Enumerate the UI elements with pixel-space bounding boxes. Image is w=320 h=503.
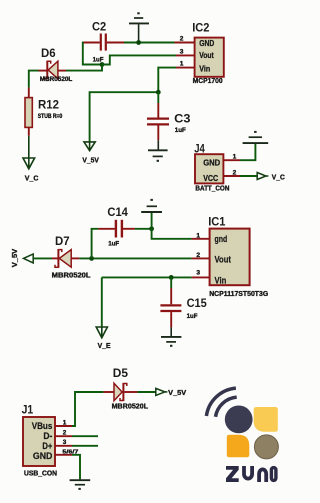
logo amber square (bottom left, rounded top-right) xyxy=(227,435,250,458)
svg-text:IC1: IC1 xyxy=(208,214,225,228)
svg-text:D6: D6 xyxy=(41,46,56,60)
SECTION J1 xyxy=(22,366,187,490)
wire J1 pin1 up to D5 xyxy=(72,392,103,426)
svg-text:GND: GND xyxy=(199,39,214,48)
connector J1 box (USB_CON) xyxy=(23,417,55,466)
node junction at (171.2,277.4) xyxy=(169,275,174,280)
supply arrow V_5V (down) xyxy=(84,142,95,151)
svg-text:MBR0520L: MBR0520L xyxy=(40,76,73,83)
svg-text:V_5V: V_5V xyxy=(168,390,186,397)
J1 pin 5/6/7 stub xyxy=(55,454,72,456)
svg-text:V_5V: V_5V xyxy=(82,158,99,165)
J1 pin 1 stub xyxy=(55,425,72,427)
wire V_E arrow lead xyxy=(101,327,103,337)
wire J4 pin1 to ground xyxy=(240,144,255,161)
svg-text:GND: GND xyxy=(33,451,53,461)
wire IC2 pin1 to node (158.3,92.2) xyxy=(158,68,176,93)
svg-text:VBus: VBus xyxy=(32,421,53,431)
wire Vout net y=258.4 xyxy=(79,257,191,259)
wire D6 left to R12 xyxy=(29,71,39,88)
connector J4 box (BATT_CON) xyxy=(195,154,223,183)
supply arrow V_5V (right) xyxy=(156,388,165,395)
svg-text:3: 3 xyxy=(63,439,67,446)
SECTION J4 xyxy=(194,131,285,193)
wire D+ stub xyxy=(72,445,98,447)
logo yellow square (top right, rounded bottom-left) xyxy=(254,407,278,432)
svg-text:MCP1700: MCP1700 xyxy=(193,78,223,85)
svg-text:C2: C2 xyxy=(92,20,106,34)
svg-text:2: 2 xyxy=(63,430,67,437)
node junction at (102,64.5) xyxy=(100,62,105,67)
wire node up to GND4 xyxy=(151,212,153,228)
svg-text:1: 1 xyxy=(233,154,237,161)
wire arrow to D7 xyxy=(33,257,52,259)
J1 pin 2 stub xyxy=(55,435,72,437)
svg-text:1: 1 xyxy=(63,419,67,426)
svg-text:MBR0520L: MBR0520L xyxy=(52,272,92,279)
svg-text:D-: D- xyxy=(43,431,52,441)
wire J4 pin2 to V_C arrow xyxy=(240,175,257,177)
logo wifi arc outer xyxy=(206,388,236,416)
capacitor C3 xyxy=(147,92,169,150)
svg-text:1: 1 xyxy=(196,232,200,239)
svg-text:2: 2 xyxy=(233,169,237,176)
svg-text:1uF: 1uF xyxy=(108,241,119,248)
IC1 box (NCP1117) xyxy=(210,229,250,286)
svg-text:J4: J4 xyxy=(194,142,205,156)
svg-text:Vout: Vout xyxy=(199,51,214,60)
IC2 pin 3 stub xyxy=(176,54,195,56)
logo olive circle xyxy=(254,435,278,459)
svg-text:USB_CON: USB_CON xyxy=(24,470,57,477)
svg-text:1uF: 1uF xyxy=(187,313,198,320)
wire IC1 pin3 net y=277.4 xyxy=(102,276,192,278)
IC2 pin 1 stub xyxy=(176,67,195,69)
SECTION TOP xyxy=(23,12,224,182)
svg-text:V_E: V_E xyxy=(98,343,111,350)
wire D- stub xyxy=(72,435,98,437)
supply arrow V_E (down) xyxy=(96,327,107,338)
node junction at (138.6,42.5) xyxy=(136,40,141,45)
svg-text:J1: J1 xyxy=(22,403,34,417)
logo letter Z xyxy=(226,466,239,482)
ground GND3 (above J4, pointing up) xyxy=(243,131,269,143)
svg-text:Vout: Vout xyxy=(215,254,232,264)
J4 pin 1 stub xyxy=(223,159,240,161)
svg-text:1uF: 1uF xyxy=(175,127,186,134)
diode D6 (MBR0520L, cathode left) xyxy=(39,61,67,80)
svg-text:2: 2 xyxy=(196,252,200,259)
svg-text:2: 2 xyxy=(180,36,184,43)
svg-text:1: 1 xyxy=(180,61,184,68)
SECTION IC1 xyxy=(12,199,269,350)
capacitor C15 xyxy=(160,277,181,336)
svg-text:D5: D5 xyxy=(113,366,128,380)
ground GND1 (top, net of C2/IC2 pin2) xyxy=(129,12,149,42)
capacitor C14 xyxy=(92,220,152,259)
supply arrow V_C (down) xyxy=(23,158,35,169)
svg-text:V_C: V_C xyxy=(25,175,39,182)
ground GND2 (below C3) xyxy=(148,150,168,162)
svg-text:C3: C3 xyxy=(174,111,190,125)
svg-text:3: 3 xyxy=(180,49,184,56)
wire GND pin to ground xyxy=(72,455,80,480)
svg-text:Vin: Vin xyxy=(199,64,210,73)
svg-text:D7: D7 xyxy=(55,234,70,248)
svg-text:BATT_CON: BATT_CON xyxy=(195,186,229,193)
IC1 pin 1 stub xyxy=(192,238,210,240)
diode D7 (MBR0520L, cathode left) xyxy=(52,249,79,268)
ground GND6 (below J1) xyxy=(70,480,91,490)
J1 pin 3 stub xyxy=(55,445,72,447)
logo letter O xyxy=(271,468,276,481)
svg-text:STUB R=0: STUB R=0 xyxy=(38,114,63,120)
svg-text:VCC: VCC xyxy=(203,174,218,183)
capacitor C2 xyxy=(83,34,124,51)
logo letter U xyxy=(244,466,252,479)
ground GND4 (above C14, pointing up) xyxy=(141,199,162,212)
wire R12 to V_C arrow xyxy=(28,136,30,168)
supply arrow V_C (right) xyxy=(257,173,266,180)
wire node to IC2 pin3 (steps) xyxy=(102,55,176,64)
logo navy circle xyxy=(225,406,253,434)
svg-text:3: 3 xyxy=(196,270,200,277)
svg-text:V_C: V_C xyxy=(272,175,285,182)
svg-text:V_5V: V_5V xyxy=(12,248,19,267)
ground GND5 (below C15) xyxy=(161,337,181,347)
svg-text:gnd: gnd xyxy=(215,234,228,244)
wire y=92.2 to V_5V corner xyxy=(90,92,159,141)
wire V_5V arrow lead xyxy=(89,142,91,150)
svg-text:D+: D+ xyxy=(42,441,52,451)
wire red stub R12 top xyxy=(28,88,30,98)
wire node down and right to IC1 pin1 xyxy=(152,229,192,239)
wire GND net y=42.5 xyxy=(124,42,176,44)
svg-text:C14: C14 xyxy=(107,205,128,219)
node junction at (151.6,228.8) xyxy=(149,226,154,231)
IC2 box (MCP1700) xyxy=(195,38,224,77)
svg-text:R12: R12 xyxy=(38,98,59,112)
J4 pin 2 stub xyxy=(223,175,240,177)
svg-text:NCP1117ST50T3G: NCP1117ST50T3G xyxy=(209,291,269,298)
node junction at (158.3,92.2) xyxy=(156,90,161,95)
IC2 pin 2 stub xyxy=(175,42,195,44)
SECTION LOGO xyxy=(206,388,278,482)
svg-text:IC2: IC2 xyxy=(192,20,209,34)
wire down to V_E arrow xyxy=(101,277,103,326)
svg-text:C15: C15 xyxy=(187,296,207,310)
wire red stub R12 bottom xyxy=(28,127,30,135)
svg-text:GND: GND xyxy=(203,159,220,168)
wire C2 left to Vout net (corner x=82.8) xyxy=(83,43,102,65)
logo wifi arc inner xyxy=(216,397,237,417)
diode D5 (MBR0520L, cathode right) xyxy=(103,383,137,401)
IC1 pin 2 stub xyxy=(192,257,210,259)
node junction at (91.6,258.4) xyxy=(89,256,94,261)
wire node down to D6 wire y=70.6 xyxy=(66,65,102,71)
svg-text:Vin: Vin xyxy=(215,275,227,285)
wire D5 to V_5V arrow xyxy=(137,391,155,393)
supply arrow V_5V (left) xyxy=(24,254,34,263)
svg-text:MBR0520L: MBR0520L xyxy=(112,404,149,411)
resistor R12 xyxy=(25,98,32,128)
IC1 pin 3 stub xyxy=(192,276,210,278)
logo letter N (arch) xyxy=(259,469,266,482)
